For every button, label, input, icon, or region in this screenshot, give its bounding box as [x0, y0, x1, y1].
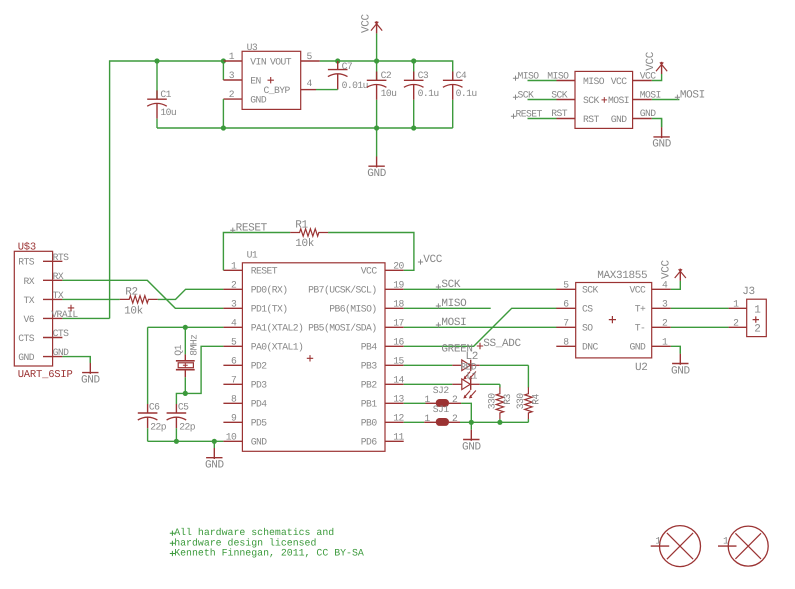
U1 pin 13 PB1 — [385, 402, 404, 404]
ISP pin MOSI — [633, 99, 652, 101]
U1 pin 8 PD4 — [223, 402, 242, 404]
svg-text:PD2: PD2 — [251, 361, 268, 372]
wire MOSI — [404, 326, 557, 328]
svg-text:GND: GND — [630, 342, 647, 353]
svg-text:PB1: PB1 — [361, 399, 378, 410]
wire RESET loop left — [223, 233, 290, 271]
capacitor C2 — [367, 61, 387, 128]
svg-text:GND: GND — [652, 139, 672, 151]
U2 pin 2 T- — [652, 326, 671, 328]
node crystal bottom junction — [183, 391, 188, 396]
footer tick 1 — [170, 531, 175, 536]
U1 pin 15 PB3 — [385, 364, 404, 366]
svg-text:RTS: RTS — [18, 257, 35, 268]
wire ISP VCC — [652, 74, 662, 81]
U1 origin cross — [307, 355, 313, 361]
svg-text:U$3: U$3 — [18, 241, 36, 253]
resistor R3 — [496, 387, 503, 419]
node VCC junction — [374, 58, 379, 63]
wire crystal to C5 — [176, 393, 185, 404]
svg-text:C5: C5 — [178, 402, 189, 413]
U1 pin 2 PD0(RX) — [223, 288, 242, 290]
svg-text:15: 15 — [393, 356, 404, 367]
wire TX left — [62, 298, 119, 300]
wire R3 top — [499, 384, 501, 387]
U1 pin 20 VCC — [385, 269, 404, 271]
svg-text:GND: GND — [640, 108, 657, 119]
svg-text:VCC: VCC — [423, 254, 443, 266]
svg-text:UART_6SIP: UART_6SIP — [18, 369, 73, 381]
svg-text:GND: GND — [81, 374, 101, 386]
wire XTAL2 row — [148, 326, 224, 328]
svg-text:MISO: MISO — [583, 76, 605, 87]
svg-text:5: 5 — [307, 51, 313, 62]
svg-text:PD6: PD6 — [361, 437, 378, 448]
svg-text:10: 10 — [226, 432, 237, 443]
svg-text:SJ1: SJ1 — [433, 404, 450, 415]
wire SJ2 to rail — [461, 403, 471, 422]
svg-text:330: 330 — [515, 393, 526, 410]
svg-text:7: 7 — [563, 318, 569, 329]
wire TX right — [158, 289, 224, 299]
label tick VCC (pin20) — [418, 259, 423, 264]
J3 pin 1 — [729, 307, 747, 309]
U1 pin 17 PB5(MOSI/SDA) — [385, 326, 404, 328]
svg-text:PD1(TX): PD1(TX) — [251, 304, 288, 315]
U1 pin 3 PD1(TX) — [223, 307, 242, 309]
U1 pin 6 PD2 — [223, 364, 242, 366]
svg-text:SCK: SCK — [582, 285, 599, 296]
svg-text:2: 2 — [754, 323, 760, 335]
label tick MOSI (net) — [436, 322, 441, 327]
svg-text:RX: RX — [53, 271, 64, 282]
svg-text:2: 2 — [231, 280, 237, 291]
svg-text:SO: SO — [582, 323, 593, 334]
U3 pin 5 VOUT — [301, 60, 320, 62]
U2 pin 1 GND — [652, 345, 671, 347]
svg-text:SJ2: SJ2 — [433, 385, 450, 396]
svg-text:GND: GND — [250, 95, 267, 106]
svg-text:6: 6 — [563, 299, 569, 310]
svg-text:C1: C1 — [160, 89, 171, 100]
wire SS_ADC — [404, 308, 557, 346]
U2 pin 6 CS — [556, 307, 575, 309]
U3 pin 3 EN — [223, 79, 242, 81]
node pin10 gnd junction — [212, 439, 217, 444]
svg-text:C6: C6 — [149, 402, 160, 413]
U2 pin 3 T+ — [652, 307, 671, 309]
capacitor C5 — [167, 404, 187, 441]
svg-text:VCC: VCC — [611, 76, 628, 87]
U$3 pin RTS — [43, 260, 62, 262]
MCU U1 box — [242, 263, 385, 452]
thermocouple IC U2 box — [576, 283, 652, 358]
ground symbol (ISP) — [653, 119, 669, 139]
svg-text:1: 1 — [229, 51, 235, 62]
resistor R1 — [290, 229, 328, 236]
svg-text:PD3: PD3 — [251, 380, 268, 391]
wire VRAIL vertical — [110, 61, 224, 318]
svg-text:13: 13 — [393, 394, 404, 405]
svg-text:GND: GND — [367, 168, 387, 180]
svg-text:GND: GND — [205, 460, 225, 472]
power VCC symbol (U2) — [675, 269, 686, 281]
U$3 pin CTS — [43, 337, 62, 339]
svg-text:GND: GND — [671, 365, 691, 377]
svg-text:PB0: PB0 — [361, 418, 378, 429]
node C5 gnd junction — [174, 439, 179, 444]
wire pin2 to ground rail — [222, 99, 224, 128]
svg-text:1: 1 — [655, 536, 661, 547]
svg-text:8: 8 — [563, 337, 569, 348]
svg-text:1: 1 — [662, 337, 668, 348]
svg-text:PB3: PB3 — [361, 361, 378, 372]
U$3 pin V6 — [43, 317, 62, 319]
U1 pin 14 PB2 — [385, 383, 404, 385]
U3 origin cross — [268, 77, 274, 83]
svg-text:PA1(XTAL2): PA1(XTAL2) — [251, 323, 304, 334]
wire U2 VCC — [671, 281, 681, 290]
wire SCK — [404, 288, 557, 290]
svg-text:5: 5 — [231, 337, 237, 348]
node C1 top junction — [154, 58, 159, 63]
svg-text:1: 1 — [754, 304, 761, 316]
LED L2 — [452, 360, 480, 380]
svg-text:PD4: PD4 — [251, 399, 268, 410]
svg-text:10k: 10k — [124, 306, 144, 318]
svg-text:SCK: SCK — [583, 95, 600, 106]
svg-text:3: 3 — [229, 70, 235, 81]
svg-text:RESET: RESET — [251, 266, 278, 277]
svg-text:U3: U3 — [247, 42, 258, 53]
svg-text:T-: T- — [635, 323, 646, 334]
U$3 pin TX — [43, 298, 62, 300]
svg-text:11: 11 — [393, 432, 404, 443]
node C2 gnd junction — [374, 125, 379, 130]
fiducial/hole H2 — [718, 526, 768, 566]
svg-text:T+: T+ — [635, 304, 646, 315]
power VCC symbol (regulator) — [371, 21, 382, 33]
svg-text:C_BYP: C_BYP — [264, 85, 291, 96]
svg-text:0.1u: 0.1u — [456, 88, 477, 99]
wire VRAIL — [62, 317, 109, 319]
svg-text:U2: U2 — [635, 362, 648, 374]
svg-text:VCC: VCC — [361, 13, 373, 33]
resistor R4 — [525, 387, 532, 419]
svg-text:2: 2 — [452, 394, 458, 405]
footer tick 2 — [170, 541, 175, 546]
svg-text:CTS: CTS — [18, 333, 35, 344]
label tick SCK — [513, 95, 518, 100]
U$3 pin RX — [43, 279, 62, 281]
svg-text:V6: V6 — [23, 314, 34, 325]
ground symbol (LED rail) — [463, 422, 479, 441]
svg-text:22p: 22p — [179, 422, 196, 433]
wire VIN to EN — [222, 61, 224, 80]
U1 pin 18 PB6(MISO) — [385, 307, 404, 309]
wire ISP GND — [652, 119, 662, 128]
svg-text:VOUT: VOUT — [270, 57, 292, 68]
svg-text:VCC: VCC — [630, 285, 647, 296]
svg-text:PB5(MOSI/SDA): PB5(MOSI/SDA) — [308, 323, 376, 334]
wire U2 GND — [671, 346, 681, 354]
wire UART GND — [62, 357, 90, 363]
wire PB1 to SJ2 — [404, 402, 426, 404]
power VCC symbol (ISP) — [656, 62, 667, 74]
J3 origin cross — [753, 316, 759, 322]
U1 pin 7 PD3 — [223, 383, 242, 385]
U1 pin 1 RESET — [223, 269, 242, 271]
svg-text:CS: CS — [582, 304, 593, 315]
svg-text:10u: 10u — [381, 88, 397, 99]
svg-text:1: 1 — [733, 299, 739, 310]
wire L1 to R3 — [480, 383, 500, 385]
U$3 pin GND — [43, 356, 62, 358]
label tick MISO — [513, 76, 518, 81]
svg-text:Kenneth Finnegan, 2011, CC BY-: Kenneth Finnegan, 2011, CC BY-SA — [174, 548, 364, 559]
ISP origin cross — [602, 97, 608, 103]
svg-text:TX: TX — [23, 295, 34, 306]
svg-text:20: 20 — [393, 261, 404, 272]
svg-text:GND: GND — [611, 114, 628, 125]
svg-text:3: 3 — [662, 299, 668, 310]
wire pin4 to C7 — [316, 89, 338, 91]
wire RX — [62, 280, 223, 308]
wire PB2 to L1 — [404, 383, 453, 385]
wire C2 to VCC symbol — [376, 33, 378, 61]
svg-text:18: 18 — [393, 299, 404, 310]
svg-text:1: 1 — [424, 394, 430, 405]
ISP pin SCK — [557, 99, 576, 101]
svg-text:R1: R1 — [295, 220, 308, 232]
svg-text:MAX31855: MAX31855 — [597, 270, 647, 282]
wire PB3 to L2 — [404, 364, 453, 366]
label tick MOSI — [675, 95, 680, 100]
U2 pin 5 SCK — [556, 288, 575, 290]
svg-text:VIN: VIN — [250, 57, 267, 68]
label tick RESET — [511, 114, 516, 119]
svg-text:MISO: MISO — [518, 70, 540, 81]
crystal Q1 — [176, 327, 195, 393]
svg-text:RESET: RESET — [516, 108, 543, 119]
svg-text:2: 2 — [452, 413, 458, 424]
svg-text:RESET: RESET — [236, 222, 268, 234]
U3 pin 2 GND — [223, 98, 242, 100]
svg-text:8MHz: 8MHz — [188, 334, 199, 356]
svg-text:PB6(MISO): PB6(MISO) — [329, 304, 376, 315]
svg-text:C7: C7 — [342, 61, 353, 72]
wire VOUT rail — [320, 61, 453, 72]
svg-text:VCC: VCC — [660, 259, 672, 279]
connector U$3 box — [14, 251, 52, 366]
wire T- — [671, 326, 729, 328]
svg-text:MOSI: MOSI — [441, 317, 466, 329]
svg-text:SCK: SCK — [551, 89, 568, 100]
U2 origin cross — [609, 316, 616, 323]
svg-text:EN: EN — [250, 76, 261, 87]
wire MISO — [404, 307, 491, 309]
node pin2 gnd junction — [221, 125, 226, 130]
wire SCK stub — [528, 99, 557, 101]
wire RESET loop right — [328, 233, 414, 271]
connector J3 box — [747, 299, 767, 336]
svg-text:MOSI: MOSI — [640, 89, 661, 100]
svg-text:330: 330 — [486, 393, 497, 410]
svg-text:MISO: MISO — [547, 70, 569, 81]
wire T+ — [671, 307, 729, 309]
svg-text:Q1: Q1 — [173, 344, 184, 355]
svg-text:2: 2 — [733, 318, 739, 329]
U3 pin 4 C_BYP — [301, 89, 316, 91]
wire jumper gnd rail — [460, 421, 528, 423]
wire ground rail under regulator — [157, 127, 453, 129]
svg-text:6: 6 — [231, 356, 237, 367]
wire PB0 to SJ1 — [404, 421, 425, 423]
J3 pin 2 — [729, 326, 747, 328]
wire XTAL1 — [185, 346, 223, 393]
svg-text:C4: C4 — [456, 70, 467, 81]
solder jumper SJ2 — [426, 399, 462, 407]
svg-text:PD0(RX): PD0(RX) — [251, 285, 288, 296]
svg-text:U1: U1 — [247, 249, 258, 260]
svg-text:1: 1 — [231, 261, 237, 272]
svg-text:4: 4 — [231, 318, 237, 329]
capacitor C6 — [138, 327, 158, 441]
node C7 junction — [335, 58, 340, 63]
svg-text:9: 9 — [231, 413, 237, 424]
svg-text:RX: RX — [23, 276, 34, 287]
ISP pin RST — [557, 118, 576, 120]
U1 pin 12 PB0 — [385, 421, 404, 423]
node crystal top junction — [183, 325, 188, 330]
wire RESET stub — [528, 118, 557, 120]
svg-text:VCC: VCC — [645, 51, 657, 71]
svg-text:L1: L1 — [466, 371, 477, 382]
wire L2 to R4 — [480, 364, 529, 366]
VRAIL label cross — [68, 305, 74, 311]
solder jumper SJ1 — [424, 418, 460, 426]
svg-text:PB7(UCSK/SCL): PB7(UCSK/SCL) — [308, 285, 376, 296]
svg-text:DNC: DNC — [582, 342, 599, 353]
node VIN/EN junction — [221, 58, 226, 63]
svg-text:17: 17 — [393, 318, 404, 329]
svg-text:CTS: CTS — [53, 328, 70, 339]
svg-text:C2: C2 — [381, 70, 392, 81]
wire ISP MOSI — [652, 99, 680, 101]
U1 pin 19 PB7(UCSK/SCL) — [385, 288, 404, 290]
svg-text:8: 8 — [231, 394, 237, 405]
label tick SCK (net) — [436, 284, 441, 289]
footer tick 3 — [170, 551, 175, 556]
label tick RESET (top) — [230, 228, 235, 233]
U1 pin 5 PA0(XTAL1) — [223, 345, 242, 347]
svg-text:VCC: VCC — [361, 266, 378, 277]
capacitor C7 — [328, 61, 348, 90]
ground symbol (regulator rail) — [368, 128, 384, 168]
svg-text:SS_ADC: SS_ADC — [483, 338, 521, 350]
crystal origin cross — [183, 363, 188, 368]
svg-text:SCK: SCK — [518, 89, 535, 100]
wire MISO stub — [528, 80, 557, 82]
node R3 gnd junction — [497, 420, 502, 425]
node C3 gnd junction — [411, 125, 416, 130]
svg-text:7: 7 — [231, 375, 237, 386]
ISP pin GND — [633, 118, 652, 120]
svg-text:0.01u: 0.01u — [342, 80, 368, 91]
svg-text:16: 16 — [393, 337, 404, 348]
svg-text:MOSI: MOSI — [680, 89, 705, 101]
svg-text:10u: 10u — [160, 107, 176, 118]
U2 pin 8 DNC — [556, 345, 575, 347]
U1 pin 16 PB4 — [385, 345, 404, 347]
svg-text:PB4: PB4 — [361, 342, 378, 353]
svg-text:GND: GND — [462, 441, 482, 453]
svg-text:PD5: PD5 — [251, 418, 268, 429]
svg-text:14: 14 — [393, 375, 404, 386]
svg-text:MISO: MISO — [441, 298, 467, 310]
svg-text:4: 4 — [662, 280, 668, 291]
ground symbol (U1 pin10) — [206, 441, 222, 459]
svg-text:2: 2 — [662, 318, 668, 329]
regulator U3 box — [242, 51, 301, 109]
ground symbol (U2) — [672, 346, 688, 365]
ISP header box — [575, 71, 633, 128]
fiducial/hole H1 — [651, 526, 701, 567]
svg-text:R2: R2 — [125, 286, 138, 298]
wire gnd rail (crystal) — [148, 440, 224, 442]
U1 pin 11 PD6 — [385, 440, 404, 442]
svg-text:C3: C3 — [418, 70, 429, 81]
svg-text:VCC: VCC — [640, 70, 657, 81]
svg-text:PA0(XTAL1): PA0(XTAL1) — [251, 342, 304, 353]
svg-text:22p: 22p — [150, 422, 167, 433]
svg-text:2: 2 — [229, 89, 235, 100]
svg-text:TX: TX — [53, 290, 64, 301]
svg-text:RST: RST — [551, 108, 568, 119]
svg-text:PB2: PB2 — [361, 380, 378, 391]
svg-text:SCK: SCK — [441, 279, 461, 291]
svg-text:RTS: RTS — [53, 252, 70, 263]
wire R4 bottom — [527, 419, 529, 422]
node gnd drop junction — [469, 420, 474, 425]
ISP pin MISO — [557, 80, 576, 82]
label tick MISO (net) — [436, 303, 441, 308]
wire R3 bottom — [499, 419, 501, 422]
svg-text:GND: GND — [18, 352, 35, 363]
svg-text:1: 1 — [723, 536, 729, 547]
capacitor C1 — [147, 61, 167, 128]
svg-text:4: 4 — [307, 78, 313, 89]
U3 pin 1 VIN — [223, 60, 242, 62]
U1 pin 9 PD5 — [223, 421, 242, 423]
capacitor C3 — [404, 61, 424, 128]
svg-text:R4: R4 — [531, 394, 542, 405]
SS_ADC label cross — [477, 343, 483, 349]
U1 pin 4 PA1(XTAL2) — [223, 326, 242, 328]
LED L1 — [452, 379, 480, 399]
svg-text:0.1u: 0.1u — [418, 88, 439, 99]
svg-text:J3: J3 — [742, 286, 755, 298]
svg-text:10k: 10k — [295, 238, 315, 250]
U2 pin 4 VCC — [652, 288, 671, 290]
svg-text:3: 3 — [231, 299, 237, 310]
svg-text:5: 5 — [563, 280, 569, 291]
resistor R2 — [120, 296, 158, 303]
node C3 top junction — [411, 58, 416, 63]
svg-text:R3: R3 — [502, 394, 513, 405]
U2 pin 7 SO — [556, 326, 575, 328]
svg-text:GND: GND — [251, 437, 268, 448]
